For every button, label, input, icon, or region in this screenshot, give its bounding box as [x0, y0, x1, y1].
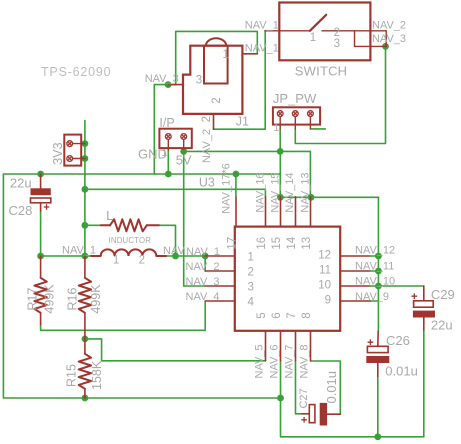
wire coil row left: [41, 255, 91, 257]
svg-text:2: 2: [139, 254, 145, 266]
op-amp U3 IC body: [235, 227, 340, 331]
junction 3V3 / pin16 line: [82, 186, 89, 193]
junction L row left: [82, 222, 89, 229]
svg-text:158K: 158K: [90, 360, 104, 390]
wire GND vertical right of U3: [377, 197, 379, 331]
svg-text:2: 2: [201, 116, 213, 122]
C28 plate (outline): [31, 198, 51, 203]
wire U3 pin4 to R17 bottom: [41, 301, 206, 330]
junction coil row / R16 top: [82, 253, 89, 260]
wire 5V to JP_PW/pin13: [184, 151, 311, 197]
switch pin1 line: [265, 30, 310, 32]
wire J1 pin2 to switch pin1: [214, 31, 266, 129]
C28 top lead: [40, 174, 42, 188]
L right lead: [147, 224, 159, 226]
J1 barrel arc: [206, 38, 226, 45]
svg-text:17: 17: [226, 237, 238, 250]
svg-text:2: 2: [211, 97, 223, 103]
junction U3 pin1: [202, 253, 209, 260]
svg-text:NAV_11: NAV_11: [355, 260, 394, 272]
C27 plus sign: [301, 417, 307, 423]
wire GND bottom rail: [281, 330, 424, 437]
junction R17 top / C28 bottom: [37, 253, 44, 260]
svg-text:NAV_9: NAV_9: [355, 291, 389, 303]
inductor coil: [101, 249, 157, 256]
svg-text:499K: 499K: [89, 284, 103, 314]
3V3 pin1 stub: [73, 143, 85, 145]
wire coil row right to U3 pin1: [166, 255, 205, 257]
junction pin6 GND rail: [277, 395, 284, 402]
junction C28 top / 5V line: [37, 171, 44, 178]
I/P pin1 stub: [167, 139, 169, 150]
wire switch pin3 to JP_PW pin2: [295, 46, 385, 143]
connector 3V3 body: [64, 135, 81, 166]
JP_PW pad 1: [277, 111, 283, 117]
svg-text:NAV_2: NAV_2: [372, 19, 406, 31]
wire across U3 top pins: [280, 196, 378, 198]
R15 bottom lead: [84, 389, 86, 398]
wire 5V horizontal: [3, 173, 280, 175]
junction R16 bottom / R15 top: [82, 336, 89, 343]
svg-text:1: 1: [248, 251, 254, 263]
wire NAV_3 down to 5V line: [153, 85, 155, 174]
junction 3V3 pad1: [82, 140, 89, 147]
L left lead: [101, 224, 110, 226]
svg-text:C28: C28: [9, 203, 33, 218]
svg-text:NAV_1: NAV_1: [62, 245, 96, 257]
U3 right pin 11 stub: [340, 270, 370, 272]
junction U3 pin12 GND: [375, 253, 382, 260]
J1 pin2 stub: [213, 114, 215, 129]
svg-text:NAV_17*6: NAV_17*6: [221, 163, 233, 214]
wire U3 pin6 down to GND: [280, 361, 282, 398]
svg-text:2: 2: [248, 266, 254, 278]
svg-text:22u: 22u: [431, 317, 453, 332]
svg-text:1: 1: [274, 122, 280, 134]
wire L row left: [85, 224, 101, 226]
wire U3 pin1-pin2 tie: [204, 256, 206, 271]
svg-text:C27: C27: [298, 388, 310, 408]
junction L / coil right: [172, 253, 179, 260]
svg-text:NAV_1: NAV_1: [186, 246, 220, 258]
connector I/P body: [159, 129, 191, 148]
svg-text:NAV_1: NAV_1: [245, 43, 279, 55]
U3 top pin 17 stub: [235, 197, 237, 227]
svg-text:22u: 22u: [10, 175, 32, 190]
junction U3 pin10 GND: [375, 283, 382, 290]
U3 left pin 1 stub: [205, 255, 235, 257]
coil right lead: [156, 255, 166, 257]
coil left lead: [91, 255, 101, 257]
switch contact tie: [354, 31, 356, 47]
svg-text:R16: R16: [65, 288, 79, 311]
junction U3 pin13: [308, 194, 315, 201]
switch S1 body: [279, 3, 370, 61]
wire U3 pin17 up to 5V: [235, 174, 237, 197]
C28 bottom lead: [40, 203, 42, 211]
wire C28 bottom to R17 top: [40, 211, 42, 256]
svg-text:NAV_2: NAV_2: [186, 261, 220, 273]
svg-text:NAV_4: NAV_4: [186, 291, 220, 303]
switch pin2 drop: [385, 31, 387, 47]
C26 plus sign: [368, 339, 374, 345]
R16 bottom lead: [84, 313, 86, 339]
3V3 pin2 stub: [73, 158, 85, 160]
junction I/P pin2 / 5V line: [180, 148, 187, 155]
svg-text:5: 5: [256, 312, 268, 318]
wire right pin jog: [370, 255, 378, 257]
svg-text:NAV: NAV: [163, 245, 185, 257]
svg-text:3V3: 3V3: [51, 142, 65, 164]
U3 right pin 12 stub: [340, 255, 370, 257]
U3 top pin 13 stub: [310, 197, 312, 227]
U3 bottom pin 5 stub: [265, 331, 267, 361]
svg-text:NAV_3: NAV_3: [145, 73, 179, 85]
capacitor C27 plate (filled): [320, 403, 327, 426]
capacitor C28 plate (filled): [31, 188, 51, 195]
R17 bottom lead: [40, 313, 42, 325]
svg-text:NAV_10: NAV_10: [355, 275, 395, 287]
svg-text:NAV_16: NAV_16: [254, 172, 266, 212]
capacitor C26 plate (filled): [366, 356, 389, 363]
svg-text:J1: J1: [236, 114, 249, 128]
svg-text:NAV_7: NAV_7: [284, 344, 296, 378]
wire JP_PW pin1 drop: [279, 151, 281, 197]
svg-text:1: 1: [310, 32, 316, 44]
junction JP_PW pin1: [277, 148, 284, 155]
J1 inner contact: [204, 46, 228, 84]
svg-text:14: 14: [286, 236, 298, 249]
R16 top lead: [84, 256, 86, 278]
svg-text:8: 8: [301, 312, 313, 318]
svg-text:NAV_8: NAV_8: [299, 344, 311, 378]
svg-text:3: 3: [196, 74, 202, 86]
svg-text:NAV_12: NAV_12: [355, 245, 395, 257]
wire to C29 top: [378, 285, 423, 287]
wire C26 bottom to GND rail: [377, 376, 379, 437]
switch pin3 line: [355, 45, 386, 47]
wire GND left rail: [3, 174, 280, 398]
U3 top pin 15 stub: [280, 197, 282, 227]
JP_PW pad 3: [308, 111, 314, 117]
wire NAV_3 horizontal: [154, 84, 175, 86]
wire I/P pin1 down: [167, 150, 169, 174]
wire right pin jog: [370, 270, 378, 272]
U3 bottom pin 6 stub: [280, 331, 282, 361]
svg-text:TPS-62090: TPS-62090: [41, 65, 111, 79]
svg-text:0.01u: 0.01u: [385, 364, 418, 379]
3V3 pad 2: [67, 156, 73, 162]
svg-text:INDUCTOR: INDUCTOR: [109, 236, 152, 245]
connector J1 barrel jack outline: [183, 46, 242, 114]
resistor R17: [34, 278, 46, 313]
junction U3 pin15: [277, 194, 284, 201]
svg-text:NAV_2: NAV_2: [201, 129, 213, 163]
svg-text:C29: C29: [431, 287, 455, 302]
wire J1 pin1 loop NAV_1: [176, 31, 258, 84]
resistor R16: [79, 278, 91, 313]
C28 plus sign: [44, 204, 50, 210]
svg-text:GND: GND: [138, 147, 167, 162]
resistor R15: [79, 354, 91, 389]
C29 bottom lead: [423, 318, 425, 331]
C27 left lead: [302, 413, 309, 415]
wire to U3 pin3: [184, 285, 205, 287]
svg-text:10: 10: [318, 280, 331, 292]
junction 3V3 pad2: [82, 155, 89, 162]
U3 top pin 14 stub: [295, 197, 297, 227]
svg-text:R15: R15: [65, 364, 79, 387]
junction U3 pin17 / 5V line: [233, 171, 240, 178]
C29 plate (outline): [414, 301, 434, 307]
svg-text:499K: 499K: [42, 284, 56, 314]
svg-text:3: 3: [248, 281, 254, 293]
C27 right lead: [327, 413, 340, 415]
wire U3 pin9 jog: [370, 300, 378, 302]
J1 pin1 stub: [242, 53, 257, 55]
C26 top lead: [377, 331, 379, 346]
switch pin2 line: [322, 30, 386, 32]
switch lever: [310, 15, 326, 31]
svg-text:C26: C26: [386, 333, 410, 348]
wire JP_PW pin3 stub: [310, 128, 325, 130]
svg-text:11: 11: [319, 265, 331, 277]
svg-text:R17: R17: [26, 288, 40, 311]
J1 pin3 stub: [168, 84, 183, 86]
3V3 pad 1: [67, 141, 73, 147]
junction I/P pin1 / 5V line: [165, 171, 172, 178]
svg-text:L: L: [106, 208, 113, 223]
svg-text:12: 12: [318, 250, 331, 262]
connector JP_PW body: [273, 107, 320, 124]
svg-text:5V: 5V: [176, 153, 192, 168]
U3 bottom pin 8 stub: [310, 331, 312, 361]
svg-text:NAV_3: NAV_3: [186, 276, 220, 288]
capacitor C29 plate (filled): [413, 311, 435, 318]
I/P pad 2: [181, 134, 187, 140]
wire JP_PW pin1 down: [279, 129, 281, 152]
U3 left pin 4 stub: [205, 300, 235, 302]
junction J1 pin3 NAV_3: [165, 81, 172, 88]
svg-text:NAV_1: NAV_1: [245, 20, 279, 32]
svg-text:4: 4: [248, 296, 255, 308]
wire U3 pin7 to C27 +: [296, 361, 303, 414]
wire 3V3 vertical: [84, 121, 86, 257]
svg-text:NAV_14: NAV_14: [284, 172, 296, 212]
svg-text:NAV_15: NAV_15: [270, 172, 282, 212]
svg-text:1: 1: [113, 254, 119, 266]
svg-text:9: 9: [325, 295, 331, 307]
junction U3 pin11 GND: [375, 268, 382, 275]
svg-text:0.01u: 0.01u: [324, 371, 339, 404]
svg-text:3: 3: [334, 38, 340, 50]
U3 left pin 3 stub: [205, 285, 235, 287]
JP_PW pin3 stub: [309, 117, 311, 129]
svg-text:SWITCH: SWITCH: [295, 63, 347, 78]
svg-text:16: 16: [256, 237, 268, 250]
svg-text:U3: U3: [199, 176, 215, 190]
R17 top lead: [40, 256, 42, 278]
C27 plate (outline): [309, 405, 315, 423]
I/P pin2 stub: [183, 139, 185, 149]
JP_PW pin1 stub: [279, 117, 281, 129]
junction C26 GND rail: [374, 433, 381, 440]
JP_PW pin2 stub: [294, 117, 296, 129]
svg-text:NAV_6: NAV_6: [269, 344, 281, 378]
svg-text:1: 1: [223, 49, 229, 61]
wire I/P pin2 down to U3 pin3: [183, 149, 185, 286]
U3 bottom pin 7 stub: [295, 331, 297, 361]
C29 top lead: [423, 286, 425, 301]
svg-text:7: 7: [286, 312, 298, 318]
svg-text:NAV_3: NAV_3: [372, 33, 406, 45]
U3 right pin 10 stub: [340, 285, 370, 287]
I/P pad 1: [165, 134, 171, 140]
wire L row right down: [159, 225, 176, 256]
JP_PW pad 2: [292, 111, 298, 117]
wire right pin jog: [370, 285, 378, 287]
svg-text:6: 6: [271, 312, 283, 318]
svg-text:15: 15: [271, 237, 283, 250]
svg-text:13: 13: [301, 237, 313, 250]
U3 top pin 16 stub: [265, 197, 267, 227]
junction R15 bottom GND: [82, 395, 89, 402]
svg-text:NAV_13: NAV_13: [300, 172, 312, 212]
svg-text:JP_PW: JP_PW: [273, 91, 317, 106]
C26 plate (outline): [367, 346, 388, 352]
U3 left pin 2 stub: [205, 270, 235, 272]
U3 right pin 9 stub: [340, 300, 370, 302]
svg-text:I/P: I/P: [159, 116, 174, 130]
inductor L zigzag: [110, 219, 147, 231]
wire U3 pin8 to C27 right: [311, 361, 341, 414]
C29 plus sign: [412, 293, 418, 299]
wire R16/R15 node to U3 pin5: [85, 339, 266, 361]
C26 bottom lead: [377, 363, 379, 376]
R15 top lead: [84, 339, 86, 354]
svg-text:NAV_5: NAV_5: [254, 344, 266, 378]
junction switch pin3 NAV_3: [382, 43, 389, 50]
wire 3V3 to U3 pin16: [85, 189, 266, 197]
